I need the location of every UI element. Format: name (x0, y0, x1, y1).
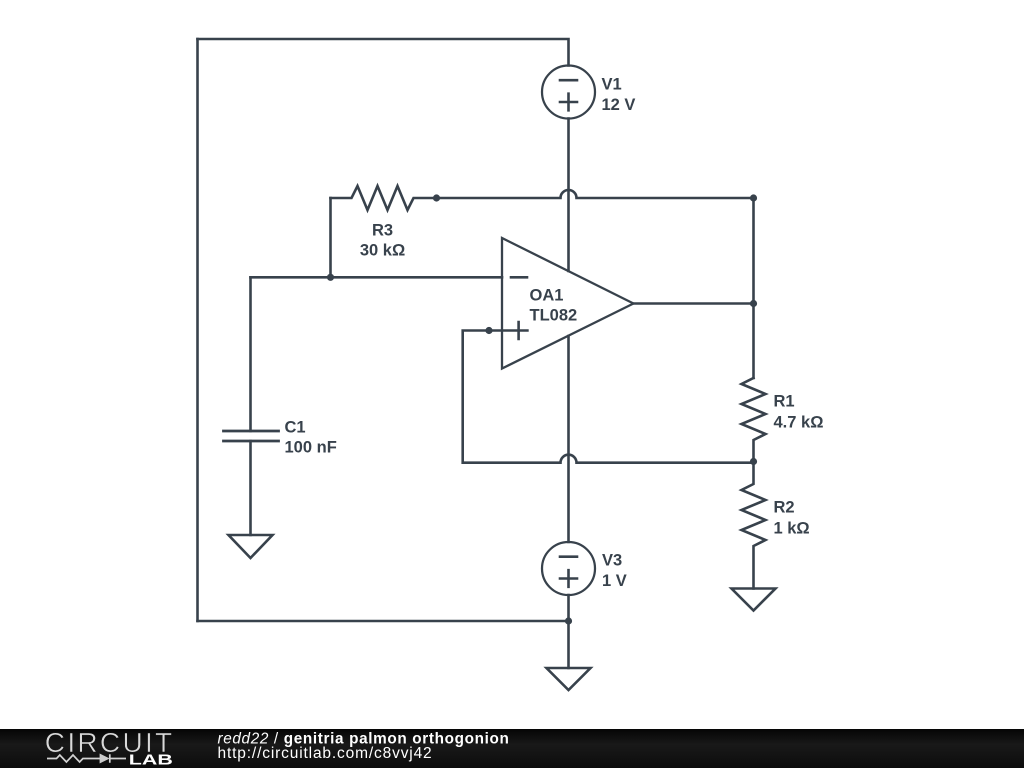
wire non-inverting input loop with hop (463, 331, 754, 463)
svg-text:V1: V1 (602, 76, 622, 94)
wire op-amp V- to V3 (567, 336, 570, 542)
op-amp OA1 (502, 238, 634, 369)
resistor R1 (742, 378, 766, 462)
junction node top right corner (750, 194, 757, 201)
voltage source V3 (542, 542, 595, 595)
svg-text:R1: R1 (774, 393, 795, 411)
junction node R1/R2 (750, 458, 757, 465)
ground below V3 (547, 668, 591, 690)
junction node R3/C1 (327, 274, 334, 281)
junction node V3 bottom (565, 617, 572, 624)
footer bar (0, 727, 1024, 768)
wire R3 left down (329, 198, 332, 277)
svg-text:R3: R3 (372, 222, 393, 240)
svg-text:1 V: 1 V (602, 572, 627, 590)
wire feedback top with hop (437, 190, 754, 198)
wire right rail (752, 198, 755, 378)
svg-text:100 nF: 100 nF (285, 439, 337, 457)
svg-text:OA1: OA1 (530, 287, 564, 305)
junction node plus input (485, 327, 492, 334)
wire left rail (196, 39, 199, 621)
voltage source V1 (542, 66, 595, 119)
wire C1 branch (249, 277, 252, 431)
resistor R3 (331, 186, 437, 210)
op-amp minus marker (511, 276, 527, 279)
svg-text:30 kΩ: 30 kΩ (360, 242, 405, 260)
wire V3 to ground (567, 595, 570, 668)
junction node R3 right (433, 194, 440, 201)
svg-text:C1: C1 (285, 419, 306, 437)
ground below R2 (732, 589, 776, 611)
wire V1 to op-amp V+ (567, 119, 570, 272)
wire inverting input (251, 276, 503, 279)
op-amp plus marker (489, 322, 527, 339)
wire op-amp output (634, 302, 754, 305)
svg-text:TL082: TL082 (530, 307, 578, 325)
wire bottom loop (198, 620, 569, 623)
svg-text:V3: V3 (602, 552, 622, 570)
resistor R2 (742, 462, 766, 589)
svg-text:12 V: 12 V (602, 96, 636, 114)
capacitor C1 (224, 431, 279, 441)
wire top loop (198, 39, 569, 66)
junction node output (750, 300, 757, 307)
svg-text:4.7 kΩ: 4.7 kΩ (774, 414, 824, 432)
svg-text:1 kΩ: 1 kΩ (774, 520, 810, 538)
svg-text:R2: R2 (774, 499, 795, 517)
svg-text:LAB: LAB (129, 752, 173, 768)
ground below C1 (229, 535, 273, 558)
svg-text:http://circuitlab.com/c8vvj42: http://circuitlab.com/c8vvj42 (218, 745, 433, 762)
